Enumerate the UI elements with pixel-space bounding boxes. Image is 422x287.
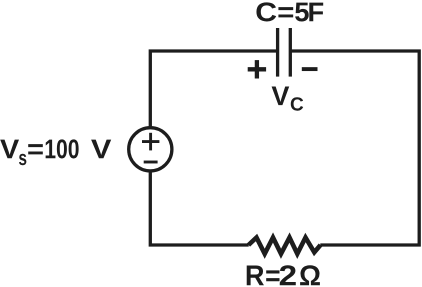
resistor R zigzag <box>249 238 321 254</box>
source value label Vs=100 V <box>0 139 111 165</box>
wire: bottom-right segment, right vertical, top-right segment to capacitor <box>290 51 419 245</box>
capacitor polarity minus sign <box>302 67 318 71</box>
capacitor C left plate <box>276 28 279 77</box>
node label VC <box>272 87 290 106</box>
voltage source minus sign <box>144 161 158 164</box>
capacitor value label C=5F <box>256 2 323 21</box>
wire: left vertical below source, bottom-left segment to resistor <box>150 171 248 245</box>
resistor value label R=2ohm <box>247 265 320 285</box>
voltage source VS circle <box>129 128 172 171</box>
capacitor C right plate <box>289 28 292 77</box>
voltage source plus sign <box>142 133 159 151</box>
wire: top-left segment and left vertical down to source top <box>150 51 277 128</box>
capacitor polarity plus sign <box>248 60 266 78</box>
